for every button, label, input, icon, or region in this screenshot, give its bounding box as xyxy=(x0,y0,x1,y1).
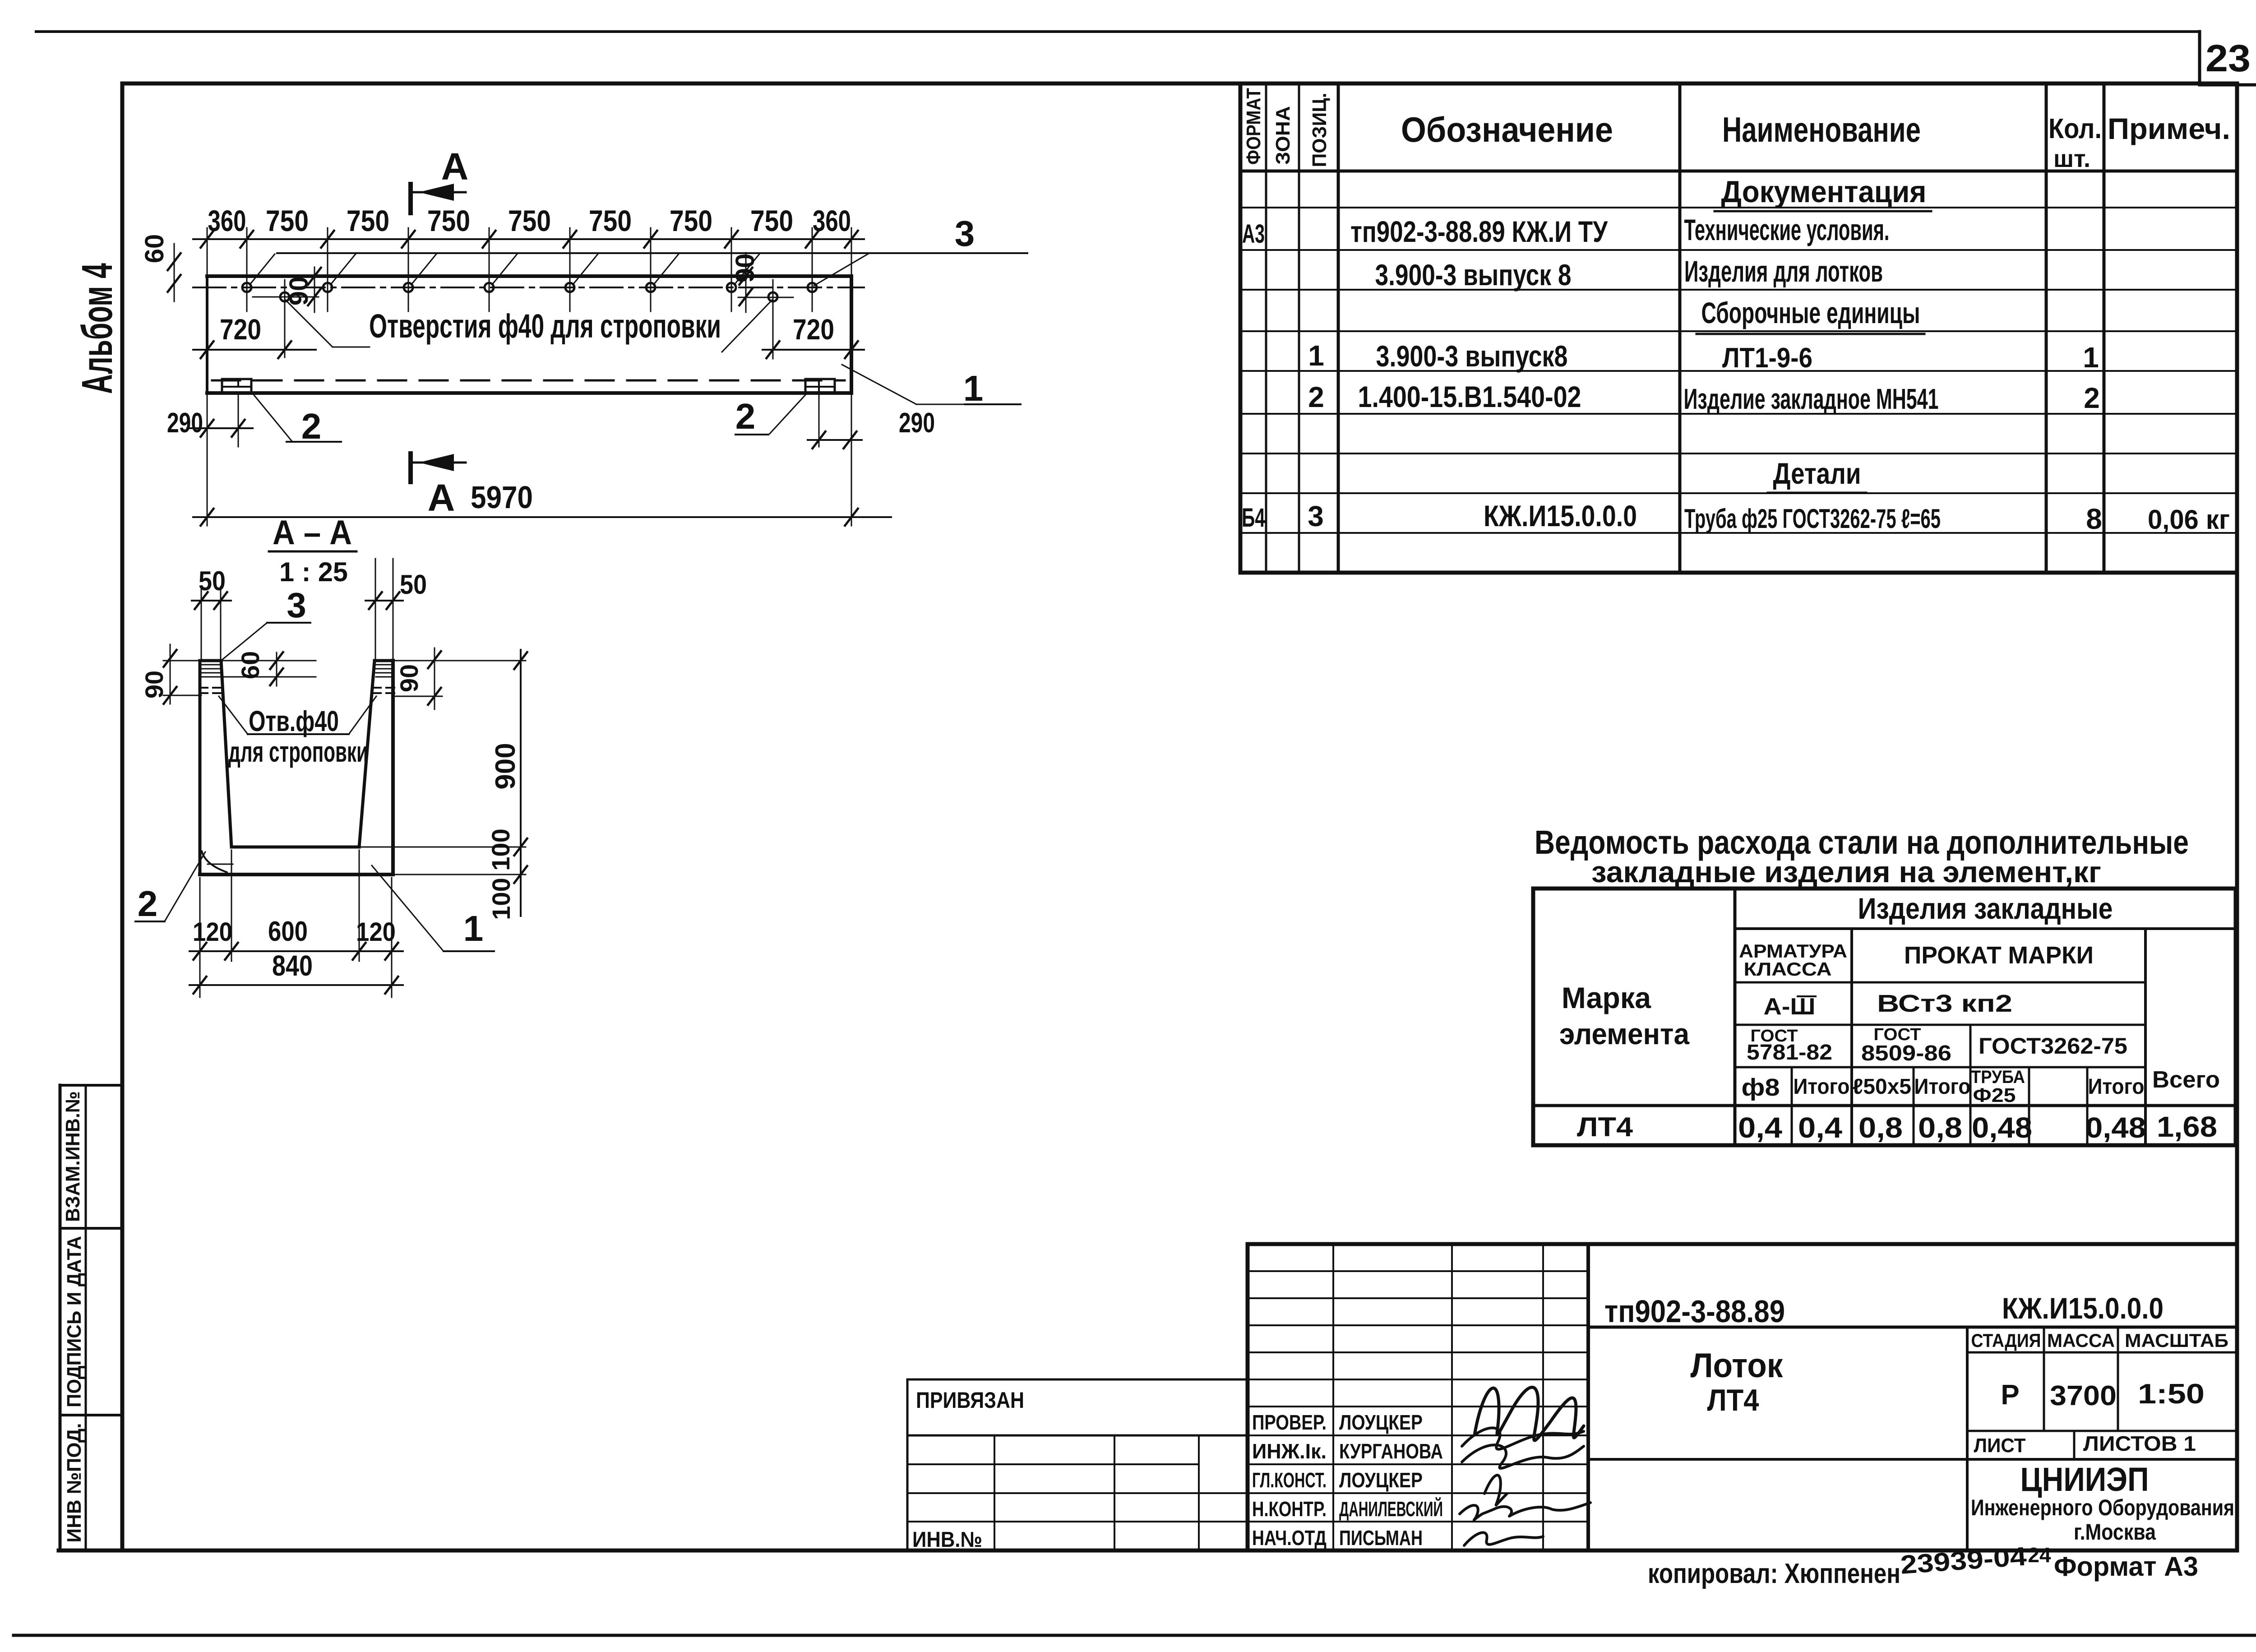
svg-text:1: 1 xyxy=(1308,339,1324,372)
svg-text:Изделия для лотков: Изделия для лотков xyxy=(1684,255,1883,288)
svg-text:ЛОУЦКЕР: ЛОУЦКЕР xyxy=(1339,1468,1423,1492)
svg-text:ГЛ.КОНСТ.: ГЛ.КОНСТ. xyxy=(1252,1468,1327,1492)
svg-text:1: 1 xyxy=(963,368,984,408)
svg-text:КЖ.И15.0.0.0: КЖ.И15.0.0.0 xyxy=(1484,499,1637,532)
svg-text:3: 3 xyxy=(287,585,306,625)
svg-text:50: 50 xyxy=(400,569,427,600)
svg-text:120: 120 xyxy=(193,917,232,947)
svg-text:КЛАССА: КЛАССА xyxy=(1744,958,1832,980)
svg-text:120: 120 xyxy=(356,917,396,947)
svg-text:Обозначение: Обозначение xyxy=(1401,110,1613,149)
svg-text:1: 1 xyxy=(463,908,484,949)
svg-text:Отверстия ф40 для строповки: Отверстия ф40 для строповки xyxy=(369,307,721,345)
svg-text:5970: 5970 xyxy=(471,480,533,515)
svg-text:Б4: Б4 xyxy=(1242,503,1265,532)
svg-text:Труба ф25 ГОСТ3262-75 ℓ=65: Труба ф25 ГОСТ3262-75 ℓ=65 xyxy=(1684,504,1941,534)
svg-text:Отв.ф40: Отв.ф40 xyxy=(249,705,339,737)
svg-text:Итого: Итого xyxy=(1794,1075,1850,1099)
svg-text:0,4: 0,4 xyxy=(1738,1111,1782,1144)
svg-text:750: 750 xyxy=(750,204,793,237)
svg-text:ПОЗИЦ.: ПОЗИЦ. xyxy=(1308,93,1331,167)
svg-text:1 : 25: 1 : 25 xyxy=(279,557,348,587)
svg-text:100: 100 xyxy=(486,828,515,870)
svg-text:Документация: Документация xyxy=(1721,175,1927,209)
svg-text:ЛТ1-9-6: ЛТ1-9-6 xyxy=(1722,342,1812,374)
svg-text:ПРИВЯЗАН: ПРИВЯЗАН xyxy=(916,1388,1024,1413)
svg-text:А – А: А – А xyxy=(273,514,352,552)
svg-text:ФОРМАТ: ФОРМАТ xyxy=(1243,88,1265,165)
svg-text:НАЧ.ОТД: НАЧ.ОТД xyxy=(1252,1526,1327,1550)
svg-text:3700: 3700 xyxy=(2050,1380,2117,1411)
svg-text:750: 750 xyxy=(589,204,632,237)
svg-text:А: А xyxy=(428,477,455,519)
svg-text:СТАДИЯ: СТАДИЯ xyxy=(1971,1330,2041,1351)
svg-text:Наименование: Наименование xyxy=(1722,110,1921,149)
svg-text:ГОСТ3262-75: ГОСТ3262-75 xyxy=(1979,1033,2127,1059)
svg-text:750: 750 xyxy=(427,204,470,237)
svg-text:г.Москва: г.Москва xyxy=(2074,1519,2156,1545)
svg-text:ЛИСТОВ 1: ЛИСТОВ 1 xyxy=(2083,1432,2196,1455)
svg-text:60: 60 xyxy=(236,651,264,679)
svg-text:1:50: 1:50 xyxy=(2138,1379,2205,1410)
svg-text:Итого: Итого xyxy=(1914,1075,1971,1099)
svg-text:90: 90 xyxy=(395,664,423,692)
svg-text:А-Ш: А-Ш xyxy=(1764,994,1816,1020)
svg-text:МАСШТАБ: МАСШТАБ xyxy=(2125,1330,2228,1351)
svg-text:Формат А3: Формат А3 xyxy=(2054,1551,2198,1582)
svg-text:0,06 кг: 0,06 кг xyxy=(2148,504,2230,535)
svg-text:0,4: 0,4 xyxy=(1798,1111,1842,1144)
svg-text:Детали: Детали xyxy=(1773,457,1861,490)
svg-text:ПИСЬМАН: ПИСЬМАН xyxy=(1339,1526,1423,1550)
svg-text:1.400-15.В1.540-02: 1.400-15.В1.540-02 xyxy=(1358,380,1581,413)
svg-text:ЛОУЦКЕР: ЛОУЦКЕР xyxy=(1339,1411,1423,1434)
svg-text:360: 360 xyxy=(208,204,246,237)
svg-text:ℓ50х5: ℓ50х5 xyxy=(1853,1075,1911,1099)
svg-text:3: 3 xyxy=(955,213,975,254)
svg-text:0,8: 0,8 xyxy=(1918,1111,1962,1144)
svg-text:Альбом 4: Альбом 4 xyxy=(73,263,121,394)
svg-text:0,48: 0,48 xyxy=(2085,1111,2146,1144)
svg-text:ИНВ №ПОД.: ИНВ №ПОД. xyxy=(63,1423,85,1543)
svg-text:Лоток: Лоток xyxy=(1691,1347,1784,1385)
svg-text:100: 100 xyxy=(487,878,515,920)
svg-text:элемента: элемента xyxy=(1559,1017,1690,1050)
svg-text:60: 60 xyxy=(140,234,169,264)
svg-text:2: 2 xyxy=(138,884,158,924)
svg-text:50: 50 xyxy=(199,566,226,596)
svg-text:ф8: ф8 xyxy=(1742,1074,1780,1101)
svg-text:Примеч.: Примеч. xyxy=(2108,112,2230,145)
svg-text:Технические условия.: Технические условия. xyxy=(1684,213,1890,246)
svg-text:600: 600 xyxy=(268,916,308,947)
svg-text:ЛТ4: ЛТ4 xyxy=(1707,1383,1759,1417)
svg-text:720: 720 xyxy=(793,313,834,346)
svg-text:копировал: Хюппенен: копировал: Хюппенен xyxy=(1648,1558,1900,1589)
svg-text:ИНВ.№: ИНВ.№ xyxy=(912,1528,982,1552)
svg-text:тп902-3-88.89: тп902-3-88.89 xyxy=(1604,1294,1785,1329)
svg-text:23: 23 xyxy=(2205,37,2251,79)
svg-text:23939-04: 23939-04 xyxy=(1900,1541,2028,1579)
svg-text:Всего: Всего xyxy=(2152,1067,2220,1093)
svg-text:360: 360 xyxy=(813,204,851,237)
svg-text:А3: А3 xyxy=(1242,219,1265,249)
svg-text:1,68: 1,68 xyxy=(2157,1111,2217,1143)
svg-text:Сборочные единицы: Сборочные единицы xyxy=(1701,296,1920,329)
svg-text:8509-86: 8509-86 xyxy=(1861,1041,1951,1065)
svg-text:2: 2 xyxy=(2084,382,2100,414)
svg-text:8: 8 xyxy=(2086,503,2102,535)
svg-text:5781-82: 5781-82 xyxy=(1747,1041,1832,1064)
svg-text:750: 750 xyxy=(508,204,551,237)
svg-text:КЖ.И15.0.0.0: КЖ.И15.0.0.0 xyxy=(2002,1291,2164,1325)
svg-text:ИНЖ.Iк.: ИНЖ.Iк. xyxy=(1252,1439,1327,1463)
svg-text:3: 3 xyxy=(1308,500,1324,532)
svg-text:Итого: Итого xyxy=(2088,1075,2145,1099)
svg-text:900: 900 xyxy=(490,743,521,789)
svg-text:Кол.: Кол. xyxy=(2048,113,2102,144)
svg-text:ПРОКАТ МАРКИ: ПРОКАТ МАРКИ xyxy=(1904,942,2094,969)
svg-text:ДАНИЛЕВСКИЙ: ДАНИЛЕВСКИЙ xyxy=(1339,1497,1443,1521)
svg-text:2: 2 xyxy=(735,396,756,436)
svg-text:Р: Р xyxy=(2001,1379,2019,1411)
svg-text:750: 750 xyxy=(266,204,309,237)
svg-text:Н.КОНТР.: Н.КОНТР. xyxy=(1252,1497,1327,1521)
svg-text:750: 750 xyxy=(670,204,712,237)
svg-text:0,48: 0,48 xyxy=(1972,1111,2032,1144)
svg-text:ЦНИИЭП: ЦНИИЭП xyxy=(2020,1461,2149,1498)
svg-text:КУРГАНОВА: КУРГАНОВА xyxy=(1339,1439,1443,1463)
svg-text:ЛТ4: ЛТ4 xyxy=(1577,1112,1633,1142)
svg-text:2: 2 xyxy=(1308,381,1324,413)
svg-text:3.900-3 выпуск 8: 3.900-3 выпуск 8 xyxy=(1375,258,1572,292)
svg-text:ЛИСТ: ЛИСТ xyxy=(1974,1435,2026,1457)
svg-text:720: 720 xyxy=(220,313,261,346)
svg-text:90: 90 xyxy=(284,277,314,306)
svg-text:МАССА: МАССА xyxy=(2047,1330,2115,1351)
svg-text:750: 750 xyxy=(347,204,389,237)
svg-text:2: 2 xyxy=(301,406,322,446)
svg-text:шт.: шт. xyxy=(2053,145,2090,172)
svg-text:закладные изделия на элемент,к: закладные изделия на элемент,кг xyxy=(1591,855,2101,888)
svg-text:А: А xyxy=(441,145,469,188)
svg-text:ПРОВЕР.: ПРОВЕР. xyxy=(1252,1411,1327,1434)
svg-text:24: 24 xyxy=(2028,1543,2051,1567)
svg-text:для строповки: для строповки xyxy=(228,736,368,768)
svg-text:1: 1 xyxy=(2083,341,2099,374)
svg-text:290: 290 xyxy=(167,407,203,439)
svg-text:Ф25: Ф25 xyxy=(1973,1084,2016,1106)
svg-text:ЗОНА: ЗОНА xyxy=(1272,106,1294,165)
svg-text:ПОДПИСЬ И ДАТА: ПОДПИСЬ И ДАТА xyxy=(63,1236,85,1407)
svg-text:Изделие закладное МН541: Изделие закладное МН541 xyxy=(1684,383,1939,415)
svg-text:Инженерного Оборудования: Инженерного Оборудования xyxy=(1971,1495,2234,1520)
svg-text:ВСт3 кп2: ВСт3 кп2 xyxy=(1877,990,2012,1017)
svg-text:Изделия закладные: Изделия закладные xyxy=(1858,892,2113,925)
svg-text:290: 290 xyxy=(899,407,935,439)
svg-text:Марка: Марка xyxy=(1562,981,1651,1014)
svg-text:90: 90 xyxy=(140,671,168,699)
svg-text:тп902-3-88.89 КЖ.И ТУ: тп902-3-88.89 КЖ.И ТУ xyxy=(1350,215,1608,248)
svg-text:840: 840 xyxy=(272,949,313,982)
svg-text:0,8: 0,8 xyxy=(1858,1111,1903,1144)
svg-text:ВЗАМ.ИНВ.№: ВЗАМ.ИНВ.№ xyxy=(62,1091,84,1222)
svg-text:3.900-3 выпуск8: 3.900-3 выпуск8 xyxy=(1376,339,1568,373)
